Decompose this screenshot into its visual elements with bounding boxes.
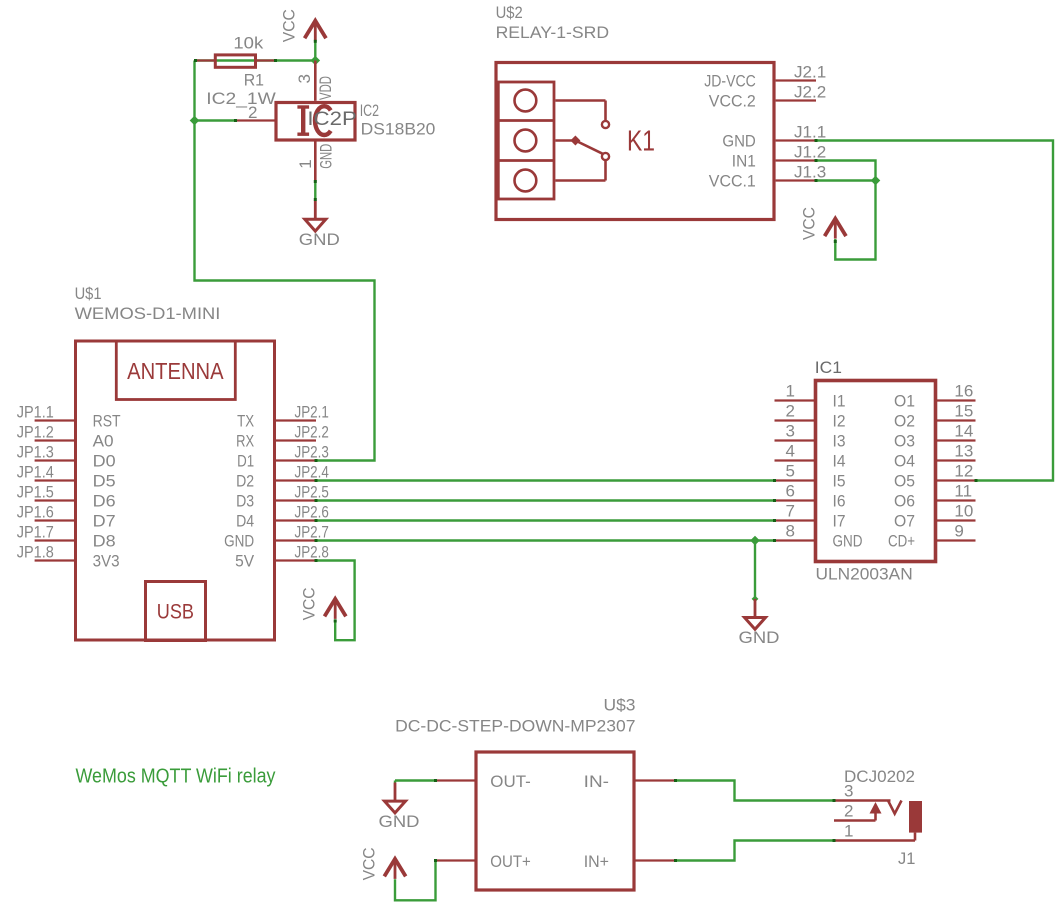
- svg-text:J2.1: J2.1: [794, 63, 826, 82]
- svg-text:IC1: IC1: [815, 358, 842, 377]
- svg-text:5: 5: [786, 462, 795, 481]
- svg-text:O7: O7: [894, 512, 915, 531]
- svg-text:U$1: U$1: [75, 284, 102, 303]
- svg-text:10: 10: [954, 502, 973, 521]
- svg-text:J1.1: J1.1: [794, 123, 826, 142]
- svg-text:VCC: VCC: [359, 847, 378, 880]
- svg-text:JP1.3: JP1.3: [17, 443, 54, 462]
- svg-text:D3: D3: [236, 492, 254, 511]
- svg-text:JP1.4: JP1.4: [17, 463, 54, 482]
- svg-text:IN+: IN+: [584, 852, 609, 871]
- svg-text:I1: I1: [833, 392, 846, 411]
- svg-text:JP1.2: JP1.2: [17, 423, 54, 442]
- svg-text:IN-: IN-: [584, 772, 609, 791]
- svg-text:I3: I3: [833, 432, 846, 451]
- svg-text:JD-VCC: JD-VCC: [704, 72, 756, 91]
- svg-text:GND: GND: [317, 144, 336, 169]
- svg-text:3: 3: [786, 422, 795, 441]
- svg-text:15: 15: [954, 402, 973, 421]
- svg-text:11: 11: [954, 482, 972, 501]
- svg-text:D7: D7: [93, 512, 116, 531]
- svg-text:JP2.1: JP2.1: [295, 403, 329, 422]
- svg-text:JP2.4: JP2.4: [295, 463, 329, 482]
- svg-text:I6: I6: [833, 492, 846, 511]
- svg-text:3: 3: [844, 782, 853, 801]
- svg-text:J1.2: J1.2: [794, 143, 826, 162]
- svg-text:4: 4: [786, 442, 795, 461]
- svg-text:1: 1: [786, 382, 795, 401]
- svg-text:DCJ0202: DCJ0202: [844, 767, 915, 786]
- svg-text:VCC.2: VCC.2: [709, 92, 756, 111]
- svg-text:O3: O3: [894, 432, 915, 451]
- svg-text:IC2: IC2: [360, 101, 379, 120]
- svg-text:GND: GND: [722, 132, 755, 151]
- svg-text:8: 8: [786, 522, 795, 541]
- svg-text:J1.3: J1.3: [794, 163, 826, 182]
- svg-text:I7: I7: [833, 512, 846, 531]
- svg-text:JP1.1: JP1.1: [17, 403, 54, 422]
- svg-text:I2: I2: [833, 412, 846, 431]
- svg-text:DS18B20: DS18B20: [361, 120, 436, 139]
- svg-text:JP1.8: JP1.8: [17, 543, 54, 562]
- svg-text:D1: D1: [237, 452, 254, 471]
- svg-text:J1: J1: [898, 849, 915, 868]
- svg-text:JP2.6: JP2.6: [295, 503, 329, 522]
- svg-text:2: 2: [248, 103, 257, 122]
- svg-text:A0: A0: [93, 432, 114, 451]
- svg-text:IN1: IN1: [732, 152, 756, 171]
- svg-text:K1: K1: [627, 126, 655, 158]
- svg-text:O4: O4: [894, 452, 915, 471]
- svg-text:1: 1: [844, 822, 853, 841]
- svg-text:VCC: VCC: [800, 207, 819, 240]
- svg-text:12: 12: [954, 462, 973, 481]
- svg-text:JP1.6: JP1.6: [17, 503, 54, 522]
- svg-text:16: 16: [954, 382, 973, 401]
- svg-text:ANTENNA: ANTENNA: [127, 358, 224, 384]
- svg-text:JP2.3: JP2.3: [295, 443, 329, 462]
- svg-text:D5: D5: [93, 472, 116, 491]
- svg-text:IC2_1W: IC2_1W: [206, 89, 275, 108]
- svg-text:3V3: 3V3: [93, 552, 120, 571]
- svg-text:R1: R1: [244, 70, 264, 89]
- svg-text:WeMos MQTT WiFi relay: WeMos MQTT WiFi relay: [76, 765, 276, 787]
- svg-text:VCC: VCC: [300, 587, 319, 620]
- svg-text:RELAY-1-SRD: RELAY-1-SRD: [496, 23, 609, 42]
- svg-text:2: 2: [786, 402, 795, 421]
- svg-text:J2.2: J2.2: [794, 83, 826, 102]
- svg-text:VDD: VDD: [316, 76, 335, 100]
- svg-text:RST: RST: [93, 412, 121, 431]
- svg-text:14: 14: [954, 422, 973, 441]
- svg-text:U$3: U$3: [604, 695, 636, 714]
- svg-text:O1: O1: [894, 392, 915, 411]
- svg-text:TX: TX: [237, 412, 254, 431]
- svg-text:1: 1: [296, 159, 315, 168]
- svg-text:VCC.1: VCC.1: [709, 172, 756, 191]
- svg-text:2: 2: [844, 802, 853, 821]
- svg-text:IC2P: IC2P: [307, 109, 356, 130]
- svg-text:GND: GND: [299, 230, 340, 249]
- svg-text:GND: GND: [224, 532, 254, 551]
- svg-text:DC-DC-STEP-DOWN-MP2307: DC-DC-STEP-DOWN-MP2307: [395, 717, 635, 736]
- svg-text:JP2.5: JP2.5: [295, 483, 329, 502]
- svg-text:I4: I4: [833, 452, 846, 471]
- svg-text:RX: RX: [236, 432, 254, 451]
- svg-text:D0: D0: [93, 452, 116, 471]
- svg-text:O5: O5: [894, 472, 915, 491]
- svg-text:JP2.7: JP2.7: [295, 523, 329, 542]
- svg-text:13: 13: [954, 442, 973, 461]
- svg-text:CD+: CD+: [888, 532, 915, 551]
- svg-text:O2: O2: [894, 412, 915, 431]
- svg-text:JP2.2: JP2.2: [295, 423, 329, 442]
- svg-text:U$2: U$2: [496, 3, 523, 22]
- svg-text:6: 6: [786, 482, 795, 501]
- svg-text:OUT-: OUT-: [490, 772, 531, 791]
- svg-text:GND: GND: [833, 532, 863, 551]
- svg-text:O6: O6: [894, 492, 915, 511]
- svg-text:VCC: VCC: [280, 9, 299, 42]
- svg-text:JP1.7: JP1.7: [17, 523, 54, 542]
- svg-text:JP2.8: JP2.8: [295, 543, 329, 562]
- svg-text:9: 9: [954, 522, 963, 541]
- svg-text:GND: GND: [379, 812, 420, 831]
- svg-text:ULN2003AN: ULN2003AN: [816, 565, 913, 584]
- svg-text:3: 3: [295, 74, 314, 83]
- svg-text:JP1.5: JP1.5: [17, 483, 54, 502]
- svg-text:D8: D8: [93, 532, 116, 551]
- svg-text:USB: USB: [157, 600, 194, 624]
- svg-text:D2: D2: [236, 472, 254, 491]
- svg-text:5V: 5V: [235, 552, 255, 571]
- svg-text:GND: GND: [739, 628, 780, 647]
- svg-text:10k: 10k: [233, 34, 263, 53]
- svg-text:D4: D4: [236, 512, 254, 531]
- svg-text:D6: D6: [93, 492, 116, 511]
- svg-text:OUT+: OUT+: [490, 852, 531, 871]
- svg-text:WEMOS-D1-MINI: WEMOS-D1-MINI: [75, 304, 221, 323]
- svg-text:7: 7: [786, 502, 795, 521]
- svg-text:I5: I5: [833, 472, 846, 491]
